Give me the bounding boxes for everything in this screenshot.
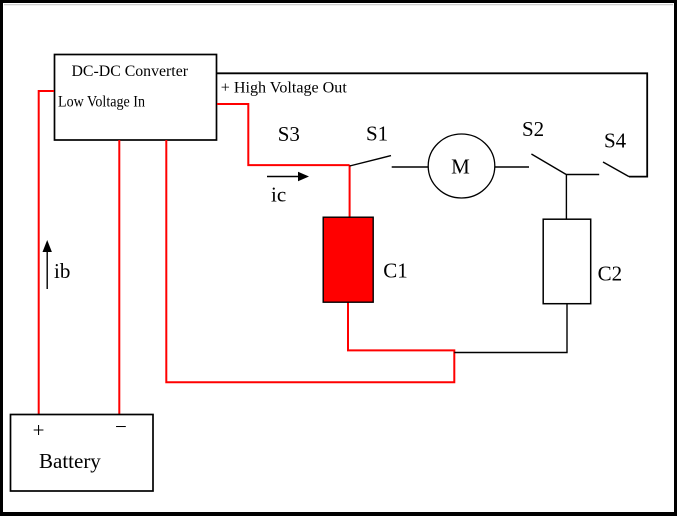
switch S4 [603, 128, 629, 176]
wire converter high voltage positive to switch S1 and capacitor C1 top [217, 104, 350, 217]
wire motor to switch S2 [495, 166, 529, 168]
motor M [428, 134, 495, 198]
wire high voltage out top rail to switch S4 [217, 73, 647, 176]
svg-text:C2: C2 [598, 262, 623, 286]
capacitor C2 [543, 219, 622, 304]
svg-text:−: − [115, 415, 127, 439]
svg-text:M: M [451, 154, 470, 178]
svg-text:+: + [33, 418, 45, 442]
battery B1 [11, 415, 154, 492]
svg-text:ic: ic [271, 183, 286, 207]
wire S2 junction to S4 left contact [566, 174, 599, 176]
svg-text:C1: C1 [383, 259, 408, 283]
svg-text:S3: S3 [278, 122, 300, 146]
svg-text:Battery: Battery [39, 449, 101, 473]
svg-text:ib: ib [54, 259, 70, 283]
svg-text:S2: S2 [522, 117, 544, 141]
wire battery positive to converter low voltage input [39, 91, 54, 414]
current arrow ic [267, 172, 309, 207]
DC-DC converter U1 [55, 55, 217, 141]
wire converter return path to capacitor C1 bottom [166, 140, 454, 382]
svg-text:Low Voltage In: Low Voltage In [58, 94, 145, 111]
wire S2 junction to capacitor C2 top [565, 175, 567, 220]
current arrow ib [43, 240, 71, 289]
wire capacitor C2 bottom to return node [454, 304, 567, 353]
wire switch S1 to motor [392, 166, 429, 168]
switch S1 [350, 122, 391, 167]
svg-text:DC-DC Converter: DC-DC Converter [72, 63, 189, 80]
svg-text:S1: S1 [366, 122, 388, 146]
svg-text:+ High Voltage Out: + High Voltage Out [221, 80, 348, 97]
wire battery negative to converter bottom [118, 140, 120, 414]
svg-text:S4: S4 [604, 128, 627, 152]
capacitor C1 [323, 217, 408, 302]
switch S2 [522, 117, 566, 174]
